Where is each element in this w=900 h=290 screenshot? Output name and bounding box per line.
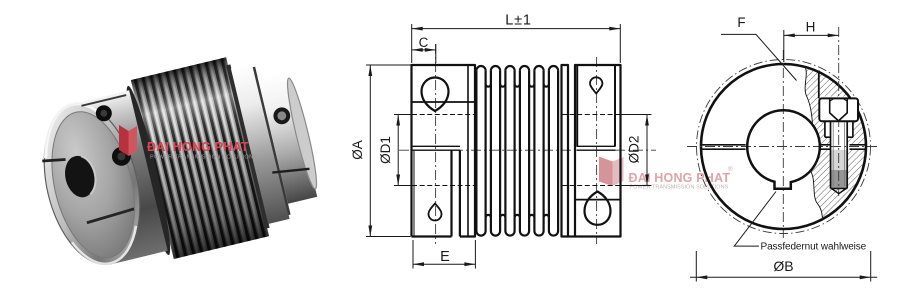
section break wavy line lower bbox=[811, 171, 823, 219]
counterbore walls bbox=[825, 121, 853, 137]
hatched section region bbox=[805, 67, 866, 219]
hex socket section bbox=[830, 99, 848, 121]
arrowheads C bbox=[412, 48, 423, 52]
axis centerline bbox=[399, 149, 656, 151]
right hub clamp screw hole (big teardrop) bbox=[585, 192, 611, 225]
dimension D2 line bbox=[646, 115, 648, 186]
screw shank bbox=[831, 121, 848, 188]
head counterbore wall bbox=[818, 71, 820, 99]
vertical centerline bbox=[782, 50, 784, 238]
right bellows end ring bbox=[562, 65, 569, 237]
svg-text:ĐAI HONG PHAT: ĐAI HONG PHAT bbox=[629, 171, 731, 185]
arrowheads L bbox=[412, 27, 423, 31]
photo: left hub body cylinder bbox=[73, 90, 168, 264]
right hub slit lines bbox=[577, 146, 616, 150]
photo: face rim top highlight bbox=[35, 98, 111, 159]
svg-text:ØA: ØA bbox=[350, 140, 365, 160]
arrowheads D1 bbox=[396, 115, 400, 126]
watermark logo on photo bbox=[119, 125, 137, 156]
left hub slit lines bbox=[412, 146, 460, 150]
dimension D1 line bbox=[397, 115, 399, 186]
right hub bottom connector bbox=[568, 235, 575, 237]
left slit bbox=[702, 145, 746, 149]
F leader bbox=[721, 34, 797, 80]
left hub ring step line bbox=[467, 65, 469, 237]
svg-text:POWER TRANSMISSION SOLUTIONS: POWER TRANSMISSION SOLUTIONS bbox=[150, 155, 257, 161]
photo: hub top slit line bbox=[81, 95, 126, 106]
outer circle bbox=[701, 64, 866, 229]
bellows peak arcs bottom bbox=[476, 231, 558, 236]
photo: bore hole bbox=[61, 153, 99, 201]
right hub seat depth line bbox=[575, 199, 621, 201]
photo: face slit lower right bbox=[86, 209, 134, 223]
right hub thread hole (small teardrop) bbox=[590, 77, 602, 93]
bore circle with keyway bbox=[747, 110, 820, 189]
svg-text:H: H bbox=[806, 20, 816, 35]
left screw centerline bbox=[435, 44, 437, 244]
left hub slot walls bbox=[452, 151, 460, 237]
left hub inner wall line bbox=[413, 151, 415, 237]
left hub counterbore depth line bbox=[412, 101, 476, 103]
photo: right hub end cap bbox=[283, 77, 321, 191]
dimension D1 extensions bbox=[394, 115, 411, 186]
dimension A line bbox=[369, 65, 371, 237]
photo: bore rim highlight bbox=[81, 154, 99, 194]
arrowheads H bbox=[784, 34, 795, 38]
photo: clamp screw hole 2 bbox=[110, 145, 133, 168]
left hub clamp screw hole (teardrop) bbox=[422, 78, 449, 112]
section break wavy line upper bbox=[805, 67, 813, 125]
bellows convolution walls bbox=[476, 71, 558, 231]
dimension L line bbox=[412, 28, 621, 30]
watermark logo 2 bbox=[599, 157, 613, 187]
dimension B line bbox=[690, 276, 877, 278]
right slit bbox=[819, 145, 866, 149]
svg-text:C: C bbox=[419, 35, 429, 50]
svg-text:®: ® bbox=[728, 166, 733, 173]
right hub outline bbox=[575, 65, 621, 237]
photo: right collar ring bbox=[231, 63, 290, 224]
photo: face rim bottom highlight bbox=[72, 226, 143, 271]
arrowheads D2 bbox=[645, 115, 649, 126]
photo: left hub front face rim bbox=[29, 94, 155, 274]
svg-text:F: F bbox=[737, 15, 745, 30]
horizontal centerline bbox=[687, 146, 880, 148]
bellows valley arcs top bbox=[486, 84, 549, 87]
screw thread fill bbox=[831, 150, 848, 189]
white punch: screw head zone bbox=[819, 97, 859, 122]
thread bottom + drill tip bbox=[831, 189, 848, 194]
photo: hub/bellows junction shadow bbox=[120, 84, 176, 257]
dimension C line + extension bbox=[412, 44, 436, 63]
svg-text:ØD2: ØD2 bbox=[627, 136, 642, 164]
svg-text:L±1: L±1 bbox=[505, 12, 532, 28]
arrowheads B bbox=[696, 275, 707, 279]
bellows valley arcs bottom bbox=[486, 215, 549, 218]
keyway leader bbox=[734, 192, 776, 247]
dimension L extension lines bbox=[412, 24, 621, 63]
photo: right hub set screw bbox=[272, 106, 292, 126]
photo: ring/hub groove bbox=[253, 67, 291, 215]
thread core lines bbox=[833, 122, 844, 186]
photo: bellows/ring junction shadow bbox=[226, 64, 270, 228]
screw axis centerline bbox=[838, 27, 840, 196]
left hub bore hidden lines bbox=[412, 115, 475, 186]
svg-text:E: E bbox=[440, 249, 450, 265]
photo: bellows cylinder bbox=[131, 57, 269, 259]
svg-text:ĐAI HONG PHAT: ĐAI HONG PHAT bbox=[147, 140, 249, 154]
right hub bore hidden lines bbox=[562, 115, 620, 186]
left hub outline bbox=[412, 65, 476, 237]
dimension B extensions bbox=[696, 251, 870, 282]
photo: right hub slit bbox=[272, 164, 309, 177]
svg-text:ØD1: ØD1 bbox=[378, 136, 393, 164]
dimension E line bbox=[413, 263, 475, 265]
dimensions of middle view bbox=[366, 24, 652, 269]
screw head bbox=[819, 98, 858, 121]
dimension E extensions bbox=[413, 240, 475, 269]
photo: clamp screw hole 1 bbox=[94, 104, 113, 123]
dimension D2 extensions bbox=[621, 115, 652, 186]
photo: right hub cylinder bbox=[258, 70, 318, 203]
photo: face inner disc bbox=[38, 103, 148, 266]
right screw centerline bbox=[596, 57, 598, 244]
svg-text:Passfedernut wahlweise: Passfedernut wahlweise bbox=[761, 242, 867, 253]
photo: face slit upper left bbox=[42, 156, 65, 165]
svg-text:ØB: ØB bbox=[773, 258, 793, 274]
arrowheads E bbox=[413, 262, 424, 266]
right hub slot walls bbox=[577, 65, 615, 146]
left hub thread hole (small teardrop) bbox=[429, 204, 442, 221]
bellows peak arcs top bbox=[476, 66, 558, 71]
dimension H line + extension bbox=[784, 30, 839, 62]
dimension A extensions bbox=[366, 65, 411, 237]
arrowheads A bbox=[368, 65, 372, 76]
centre mark circle (dash-dot) bbox=[697, 60, 871, 234]
